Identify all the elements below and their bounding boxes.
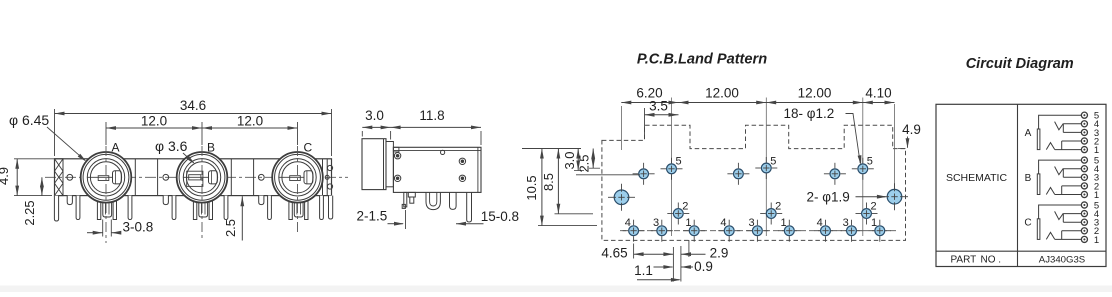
svg-text:1: 1 [871, 217, 877, 229]
svg-text:4: 4 [720, 217, 726, 229]
svg-text:11.8: 11.8 [419, 108, 444, 123]
svg-text:10.5: 10.5 [524, 175, 539, 200]
svg-text:1: 1 [1094, 145, 1099, 156]
svg-text:1: 1 [1094, 190, 1099, 201]
svg-text:2: 2 [870, 201, 876, 213]
svg-text:12.00: 12.00 [705, 86, 739, 101]
svg-text:φ 6.45: φ 6.45 [9, 112, 49, 128]
svg-text:2- φ1.9: 2- φ1.9 [807, 190, 850, 205]
svg-text:1: 1 [1094, 235, 1099, 246]
svg-text:A: A [1025, 128, 1032, 139]
svg-text:3.0: 3.0 [365, 108, 384, 123]
svg-text:8.5: 8.5 [541, 173, 556, 191]
svg-text:4.65: 4.65 [601, 246, 627, 261]
svg-text:PART: PART [951, 254, 977, 265]
svg-text:A: A [112, 141, 120, 155]
svg-text:3: 3 [843, 217, 849, 229]
svg-text:2.25: 2.25 [22, 200, 37, 225]
svg-text:3: 3 [749, 217, 755, 229]
svg-text:NO .: NO . [981, 254, 1002, 265]
svg-text:0.9: 0.9 [694, 259, 713, 274]
svg-text:Circuit Diagram: Circuit Diagram [966, 56, 1074, 72]
svg-text:5: 5 [770, 155, 776, 167]
svg-text:5: 5 [675, 155, 681, 167]
svg-text:3: 3 [653, 217, 659, 229]
svg-text:2: 2 [775, 201, 781, 213]
svg-text:4.9: 4.9 [902, 122, 921, 137]
svg-text:4: 4 [625, 217, 631, 229]
svg-text:1: 1 [780, 217, 786, 229]
svg-text:φ 3.6: φ 3.6 [155, 138, 188, 154]
svg-text:12.0: 12.0 [141, 114, 167, 129]
svg-text:2.5: 2.5 [223, 219, 238, 237]
svg-text:3.5: 3.5 [649, 99, 668, 114]
svg-text:P.C.B.Land Pattern: P.C.B.Land Pattern [637, 51, 767, 67]
svg-text:4.10: 4.10 [865, 86, 891, 101]
svg-text:1: 1 [685, 217, 691, 229]
svg-text:B: B [207, 141, 215, 155]
svg-text:12.00: 12.00 [798, 86, 832, 101]
svg-text:C: C [1024, 218, 1031, 229]
svg-text:15-0.8: 15-0.8 [481, 209, 519, 224]
svg-text:12.0: 12.0 [237, 114, 263, 129]
svg-text:5: 5 [867, 155, 873, 167]
svg-text:4: 4 [817, 217, 823, 229]
svg-text:3.0: 3.0 [562, 151, 577, 169]
svg-text:1.1: 1.1 [634, 263, 653, 278]
svg-text:B: B [1025, 173, 1032, 184]
svg-text:C: C [304, 141, 313, 155]
svg-text:2.5: 2.5 [577, 154, 592, 172]
svg-text:SCHEMATIC: SCHEMATIC [946, 172, 1007, 184]
svg-text:3-0.8: 3-0.8 [123, 220, 154, 235]
svg-text:AJ340G3S: AJ340G3S [1039, 255, 1085, 266]
svg-text:2-1.5: 2-1.5 [357, 209, 388, 224]
svg-text:34.6: 34.6 [180, 98, 206, 113]
svg-text:2: 2 [682, 201, 688, 213]
svg-text:18- φ1.2: 18- φ1.2 [784, 106, 835, 121]
svg-text:4.9: 4.9 [0, 167, 11, 185]
